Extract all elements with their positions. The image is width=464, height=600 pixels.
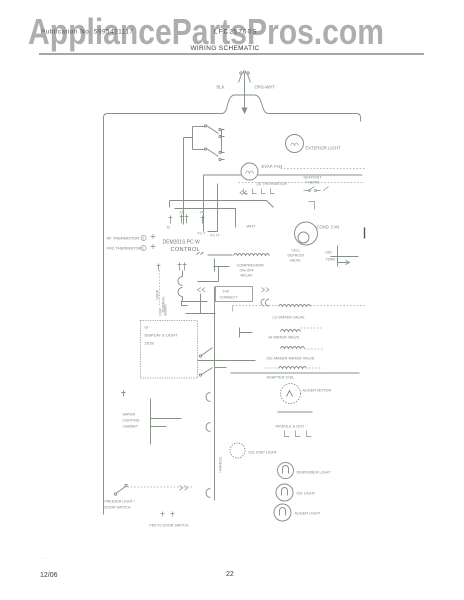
wire labels at cord bbox=[217, 85, 276, 90]
svg-text:CELL: CELL bbox=[292, 249, 301, 253]
freezer door switch 2 bbox=[193, 148, 225, 161]
svg-text:BOARD: BOARD bbox=[164, 303, 168, 315]
svg-text:AUGER LIGHT: AUGER LIGHT bbox=[295, 512, 321, 516]
pin J2 bbox=[169, 216, 173, 224]
cabinet outline top edge with cord bump bbox=[104, 95, 361, 122]
svg-text:ICE MAKER WATER VALVE: ICE MAKER WATER VALVE bbox=[267, 357, 315, 361]
svg-text:WHT: WHT bbox=[247, 224, 257, 229]
door terminal rotated text bbox=[156, 289, 166, 312]
svg-text:2: 2 bbox=[142, 237, 144, 241]
power cord plug prongs bbox=[239, 74, 251, 83]
relay tie wire bbox=[198, 267, 230, 282]
connector block 3-W bbox=[216, 287, 253, 302]
svg-text:F1-7: F1-7 bbox=[198, 232, 206, 236]
door harness pins bbox=[157, 263, 187, 271]
wire stub left bbox=[169, 201, 171, 208]
svg-text:FREEZER LIGHT /: FREEZER LIGHT / bbox=[105, 500, 135, 504]
svg-text:HARNESS: HARNESS bbox=[219, 457, 223, 472]
svg-text:J2: J2 bbox=[167, 226, 171, 230]
water valve coil 1 bbox=[279, 305, 311, 307]
compressor relay coil bbox=[197, 252, 270, 256]
stray scan marks bbox=[40, 556, 150, 560]
right vertical bus bbox=[206, 259, 215, 501]
cabinet outline left edge bbox=[103, 118, 105, 515]
wire bus E vertical bbox=[183, 201, 185, 225]
pin marks bbox=[161, 512, 175, 517]
svg-text:AUGER MOTOR: AUGER MOTOR bbox=[303, 389, 332, 393]
water valve coil 2 bbox=[281, 330, 301, 332]
svg-text:RF THERMISTOR: RF THERMISTOR bbox=[107, 236, 140, 241]
defrost thermostat bbox=[304, 176, 323, 185]
wire bus B horizontal bbox=[175, 209, 236, 228]
door harness dashed wire bbox=[159, 271, 161, 306]
crusher wire bbox=[278, 411, 313, 413]
ground wire w/ arrow bbox=[244, 83, 246, 109]
schematic strokes group bbox=[104, 71, 361, 515]
svg-text:WIRING SCHEMATIC: WIRING SCHEMATIC bbox=[190, 45, 259, 52]
dispenser switch 1 bbox=[198, 348, 256, 361]
UI rotated labels bbox=[159, 303, 168, 315]
thermistor labels bbox=[107, 236, 142, 251]
UI board feeder wires bbox=[182, 294, 216, 314]
auger motor bbox=[281, 384, 301, 404]
svg-text:BLK: BLK bbox=[217, 85, 225, 90]
svg-text:CONTROL: CONTROL bbox=[171, 247, 200, 253]
svg-text:Publication No. 5995421117: Publication No. 5995421117 bbox=[41, 29, 134, 36]
svg-text:ADAPTER COIL: ADAPTER COIL bbox=[267, 376, 295, 380]
svg-text:DEM201S PC W: DEM201S PC W bbox=[163, 240, 201, 246]
svg-text:RELAY: RELAY bbox=[241, 274, 254, 278]
svg-text:201S: 201S bbox=[145, 341, 155, 346]
ice light bbox=[276, 484, 293, 501]
svg-text:MODULE & DOT: MODULE & DOT bbox=[276, 425, 306, 429]
evaporator fan motor bbox=[204, 163, 363, 224]
svg-text:ON-OFF: ON-OFF bbox=[240, 269, 255, 273]
svg-text:F1 IT: F1 IT bbox=[211, 234, 221, 238]
condenser fan motor bbox=[295, 222, 318, 245]
svg-text:DEF: DEF bbox=[326, 251, 333, 255]
chevron right bbox=[262, 288, 270, 292]
thermistor dotted wire bbox=[239, 169, 365, 183]
bus tap bracket bbox=[240, 328, 253, 338]
svg-text:ORG-WHT: ORG-WHT bbox=[255, 85, 276, 90]
header rule bbox=[39, 53, 424, 55]
svg-text:DISP: DISP bbox=[159, 308, 163, 315]
connector row bottom bbox=[285, 431, 312, 437]
freezer door light switch bbox=[114, 484, 127, 495]
chevron connector bbox=[240, 191, 247, 195]
chevron small bbox=[261, 299, 269, 306]
connector bar bbox=[364, 228, 366, 239]
svg-text:FRZ FL DOOR SWITCH: FRZ FL DOOR SWITCH bbox=[150, 524, 189, 528]
svg-text:COND. FAN: COND. FAN bbox=[317, 225, 340, 230]
dotted stubs bbox=[265, 328, 323, 368]
wire bus D vertical bbox=[203, 224, 205, 232]
svg-text:UI: UI bbox=[145, 325, 149, 330]
svg-text:DEFROST: DEFROST bbox=[304, 176, 323, 180]
svg-text:LFC25760S: LFC25760S bbox=[214, 29, 258, 36]
svg-text:. . : .: . . : . bbox=[40, 556, 46, 560]
wire through evap fan bbox=[204, 174, 363, 176]
svg-text:VALVE: VALVE bbox=[290, 259, 302, 263]
cabinet lamp tap bbox=[122, 391, 126, 397]
connector arcs on bus bbox=[206, 393, 211, 402]
connector row under evap fan bbox=[244, 189, 275, 194]
switch bracket wires bbox=[184, 127, 222, 201]
svg-text:WATER: WATER bbox=[123, 413, 136, 417]
svg-text:DEFROST: DEFROST bbox=[288, 254, 306, 258]
svg-text:ICE LIGHT: ICE LIGHT bbox=[297, 492, 316, 496]
svg-text:DISPENSER LIGHT: DISPENSER LIGHT bbox=[297, 471, 332, 475]
auger coil bbox=[231, 367, 360, 374]
chevrons mid bbox=[198, 288, 206, 292]
ice dispenser lamp bbox=[230, 443, 245, 458]
svg-text:LIGHTING: LIGHTING bbox=[123, 419, 140, 423]
svg-text:HI WATER VALVE: HI WATER VALVE bbox=[269, 336, 300, 340]
pin J4 bbox=[201, 216, 205, 224]
svg-text:J3: J3 bbox=[180, 211, 184, 215]
svg-text:DISPLAY & LIGHT: DISPLAY & LIGHT bbox=[145, 333, 179, 338]
cabinet wires bbox=[151, 399, 182, 445]
svg-text:12/06: 12/06 bbox=[40, 572, 58, 579]
svg-text:J4: J4 bbox=[200, 211, 204, 215]
defrost terminal axes bbox=[331, 246, 359, 267]
pin J3a bbox=[180, 215, 184, 224]
svg-text:ICE DISP LIGHT: ICE DISP LIGHT bbox=[249, 451, 278, 455]
svg-text:EXTERIOR LIGHT: EXTERIOR LIGHT bbox=[306, 146, 341, 151]
connector plug arcs bbox=[178, 271, 187, 306]
ice maker coil bbox=[281, 347, 305, 349]
svg-text:FRZ THERMISTOR: FRZ THERMISTOR bbox=[107, 246, 142, 251]
svg-text:CONNECT: CONNECT bbox=[220, 296, 239, 300]
svg-text:THERM.: THERM. bbox=[306, 181, 321, 185]
svg-text:3-W: 3-W bbox=[223, 290, 230, 294]
dispenser switch 2 bbox=[199, 368, 226, 377]
exterior light bbox=[286, 135, 304, 153]
freezer door switch 1 bbox=[193, 125, 225, 138]
wire bus A horizontal bbox=[170, 201, 274, 208]
svg-text:(3) THERMISTOR: (3) THERMISTOR bbox=[257, 182, 288, 186]
svg-text:CABINET: CABINET bbox=[123, 425, 139, 429]
svg-text:DOOR: DOOR bbox=[156, 289, 160, 299]
dispenser light bbox=[278, 463, 294, 479]
svg-text:COMPRESSOR: COMPRESSOR bbox=[237, 264, 265, 268]
svg-text:DOOR SWITCH: DOOR SWITCH bbox=[105, 506, 131, 510]
svg-text:EVAP. FAN: EVAP. FAN bbox=[262, 164, 283, 169]
svg-text:TERM: TERM bbox=[326, 258, 336, 262]
auger light bbox=[274, 504, 291, 521]
svg-text:1: 1 bbox=[142, 247, 144, 251]
svg-text:22: 22 bbox=[226, 571, 234, 578]
wire center bus down bbox=[203, 175, 205, 224]
svg-text:LO WATER VALVE: LO WATER VALVE bbox=[273, 316, 306, 320]
defrost valve label bbox=[288, 249, 306, 263]
pin J3b bbox=[185, 215, 189, 224]
UI display board box bbox=[141, 321, 198, 379]
wire bus C vertical bbox=[208, 184, 218, 232]
svg-text:.:: .: bbox=[148, 556, 150, 560]
